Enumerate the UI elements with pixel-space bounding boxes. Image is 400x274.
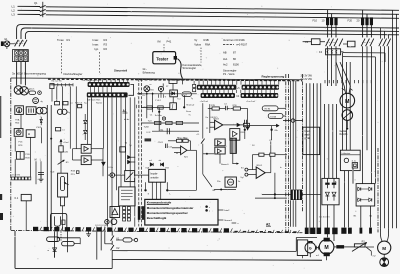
capacitor C8 drop	[269, 140, 272, 153]
svg-text:Isoll2: Isoll2	[63, 152, 69, 154]
op-amp N101 current regulator	[206, 104, 250, 139]
svg-text:K: K	[148, 193, 150, 195]
svg-text:AB: AB	[223, 50, 227, 54]
svg-text:verteiler: verteiler	[150, 176, 158, 179]
svg-text:5Ω: 5Ω	[369, 215, 372, 217]
label above strip X1A	[82, 80, 102, 82]
svg-text:IM: IM	[158, 39, 162, 43]
svg-text:L3: L3	[12, 12, 16, 16]
svg-text:Ign: Ign	[95, 47, 99, 51]
svg-text:s: s	[209, 211, 211, 213]
label board A2	[266, 222, 271, 226]
svg-text:auf: auf	[149, 160, 152, 162]
svg-text:P2A: P2A	[15, 118, 20, 121]
svg-text:wach.: wach.	[304, 133, 311, 136]
svg-text:M: M	[324, 245, 328, 251]
label Strom-0 arrow lower	[218, 219, 233, 222]
diode pair V1A	[145, 160, 153, 169]
wire phase drop to transformer	[17, 62, 26, 86]
legend box kommandostufe	[145, 199, 218, 225]
contactor K2 coil	[343, 41, 355, 47]
svg-text:Lüftersteu.: Lüftersteu.	[342, 152, 351, 155]
firing stage small box	[120, 142, 135, 163]
contactor main contacts 3-pole	[14, 40, 27, 47]
diode marks upper column	[84, 114, 87, 140]
connector X8B boxes	[193, 81, 196, 92]
rectifier box with bars	[26, 107, 36, 115]
rectifier small stadium	[29, 89, 41, 95]
ground symbol field	[86, 231, 91, 236]
svg-text:N14.1: N14.1	[257, 165, 263, 167]
svg-text:b+: b+	[280, 167, 283, 169]
svg-text:+15: +15	[196, 134, 199, 136]
contact K2 interlock	[111, 241, 120, 269]
header Steuerteil	[114, 68, 127, 72]
svg-text:R5: R5	[177, 138, 179, 140]
cabinet border left	[10, 78, 12, 231]
svg-text:P16: P16	[18, 141, 23, 143]
header Kommandostufe	[183, 63, 203, 70]
connector node on interface wire	[283, 119, 303, 123]
pulse stage box	[230, 129, 245, 141]
svg-text:A2: A2	[266, 222, 270, 226]
label Strom-0 arrow	[221, 163, 239, 166]
cabinet border right double	[286, 74, 289, 232]
header Ist-Erfassung	[143, 67, 156, 75]
wire supply verticals	[15, 114, 41, 176]
diode field supply	[47, 248, 56, 258]
label below strip X2B	[246, 101, 255, 103]
label M L wires	[35, 159, 42, 184]
wire control bus 2	[21, 28, 399, 39]
wire left return drop	[14, 231, 16, 268]
thermal relay F4	[319, 49, 343, 55]
label P2A R0b	[15, 118, 20, 124]
legend title	[147, 201, 172, 205]
svg-text:F20: F20	[348, 19, 353, 23]
pulse amplifier box 2	[215, 147, 225, 154]
svg-text:C1: C1	[62, 130, 65, 132]
label C between strips	[236, 96, 240, 98]
label R1B R6A	[178, 137, 188, 140]
svg-text:E4: E4	[241, 168, 244, 170]
svg-text:gleich: gleich	[29, 89, 34, 91]
svg-text:Stromregler: Stromregler	[183, 66, 197, 70]
svg-text:Tg: Tg	[191, 98, 193, 100]
svg-text:Rdf Hoch RDs: Rdf Hoch RDs	[87, 100, 100, 102]
field winding oval 2	[61, 231, 74, 245]
svg-text:Ist -: Ist -	[143, 67, 148, 71]
svg-text:Strom=0: Strom=0	[186, 103, 195, 106]
fuse-switch G1 with auxiliary box	[1, 38, 15, 49]
label Schalte with symbol	[155, 114, 166, 120]
svg-text:+1uf 1ud: +1uf 1ud	[200, 101, 209, 103]
pulse bars black	[138, 206, 145, 220]
connector box above border	[169, 80, 177, 90]
scan artifact blob 2	[0, 213, 3, 220]
feedback resistor pair	[252, 153, 287, 156]
label C1 Twd TwB2	[144, 114, 154, 128]
svg-text:G: G	[309, 247, 312, 251]
pulse distributor box	[149, 169, 166, 182]
reference supply arrow	[50, 139, 69, 173]
svg-text:A1: A1	[123, 109, 127, 113]
svg-text:n=0 R107: n=0 R107	[236, 42, 248, 46]
svg-text:Av1: Av1	[223, 57, 228, 61]
cabinet border top texture	[48, 79, 302, 81]
limit diode ticks	[158, 94, 166, 98]
header Stromversorgung	[12, 72, 46, 76]
scan artifact blob 1	[0, 96, 2, 200]
svg-text:Kommandostufe,: Kommandostufe,	[183, 63, 203, 67]
svg-text:Av2: Av2	[223, 62, 228, 66]
svg-text:Tsoll: Tsoll	[50, 171, 55, 173]
svg-text:M11: M11	[150, 90, 154, 92]
svg-text:By: By	[68, 112, 70, 114]
integrator box	[170, 103, 177, 110]
svg-text:m1: m1	[316, 255, 320, 257]
header Drehzahlregler	[64, 72, 83, 76]
wire N21 output drop	[195, 150, 197, 190]
cabinet border bottom	[11, 230, 303, 232]
wire stubs between X1A rows	[90, 87, 111, 92]
relay oval K1.9A	[268, 114, 286, 119]
wire summing rail	[141, 106, 170, 131]
terminal strip X1A row2	[87, 92, 128, 97]
svg-text:R2: R2	[104, 47, 108, 51]
left section component rects	[55, 102, 74, 132]
main motor M1	[316, 238, 334, 257]
thermal overload relay F1 block	[13, 50, 29, 62]
label Strom=0 with node	[183, 103, 195, 116]
svg-text:C4 R: C4 R	[146, 132, 151, 134]
cable stub row	[305, 215, 373, 234]
svg-text:RT: RT	[166, 86, 169, 88]
svg-text:TwB2: TwB2	[144, 126, 150, 128]
summing amplifier N11 circle	[142, 86, 154, 97]
pulse amplifier box 1	[215, 139, 225, 146]
relay P1B box	[16, 152, 30, 160]
svg-text:Da: Da	[206, 117, 209, 119]
header Stromregler P1	[223, 69, 237, 77]
svg-text:R3D: R3D	[241, 132, 245, 134]
node K distributor output	[144, 182, 146, 191]
svg-text:Impuls-: Impuls-	[150, 174, 158, 176]
wire control bus 3	[25, 31, 399, 39]
potentiometer P1B tall box	[58, 173, 69, 197]
svg-text:P15: P15	[71, 174, 76, 176]
wire field drops	[55, 231, 68, 257]
svg-text:P1 - Verst.: P1 - Verst.	[223, 72, 235, 76]
label R15 C3 with box	[75, 103, 83, 108]
cabinet border outer right	[301, 74, 303, 212]
label +S- between strips	[237, 88, 240, 90]
svg-text:Momentenrichtungsspeicher: Momentenrichtungsspeicher	[147, 211, 189, 215]
svg-text:Drehzahlregler: Drehzahlregler	[64, 72, 83, 76]
svg-text:gerät: gerät	[304, 137, 310, 140]
wire distributor drops	[152, 182, 160, 199]
wire fan feeders	[343, 46, 376, 227]
svg-text:R4: R4	[252, 145, 254, 147]
label Vy R1B column	[194, 38, 210, 63]
label 3U 3V 3W terminals	[301, 74, 313, 81]
terminal strip X2A row2	[201, 93, 235, 98]
svg-text:1C1 1D1 1E1: 1C1 1D1 1E1	[319, 216, 330, 218]
svg-text:R1: R1	[66, 162, 70, 164]
label Istw2 arrow	[218, 209, 230, 212]
svg-text:R0b: R0b	[15, 123, 20, 125]
node L1 L2 L3 supply labels	[12, 4, 16, 16]
wire rail above strip X2	[197, 79, 283, 82]
svg-text:R1B: R1B	[71, 170, 76, 172]
svg-text:L: L	[40, 159, 42, 161]
wire field link	[57, 238, 80, 244]
terminal strip X1A row1	[88, 82, 130, 87]
svg-text:Erfassung: Erfassung	[143, 70, 156, 74]
svg-text:Imax: Imax	[93, 42, 99, 46]
contactor K1 main contacts	[326, 39, 343, 47]
switch Q1 main disconnect	[34, 1, 46, 17]
svg-text:R1 R4: R1 R4	[265, 109, 272, 111]
converter capacitors	[325, 178, 336, 188]
label Rx with node	[213, 189, 236, 193]
svg-text:ds ds: ds ds	[124, 119, 130, 121]
svg-text:M: M	[345, 99, 349, 105]
shaft coupling	[316, 246, 320, 250]
wire steuerteil vertical bundle	[103, 97, 134, 226]
power resistor block striped	[290, 190, 302, 200]
svg-text:m: m	[47, 250, 49, 252]
svg-text:R76: R76	[18, 145, 23, 147]
svg-text:Rd n=0 R5: Rd n=0 R5	[52, 81, 63, 83]
svg-text:R1B: R1B	[204, 38, 209, 42]
wire regler margin verticals	[291, 81, 296, 227]
resistor R1B lower	[60, 197, 64, 231]
svg-text:V102: V102	[36, 127, 42, 129]
svg-text:V: V	[165, 97, 167, 99]
svg-text:+1us 1ud: +1us 1ud	[246, 101, 255, 103]
terminal tick row	[325, 80, 371, 83]
svg-text:E14a: E14a	[109, 167, 114, 169]
svg-text:Beschaltlogik: Beschaltlogik	[147, 216, 167, 220]
svg-text:Tst: Tst	[238, 180, 241, 183]
section divider steuerteil	[139, 79, 142, 227]
svg-text:R3: R3	[104, 42, 108, 46]
svg-text:Strom-0: Strom-0	[224, 219, 233, 222]
wire bridge outputs	[361, 206, 371, 228]
pulse transformer hatched	[230, 138, 236, 153]
wire speed section drops	[147, 92, 185, 119]
svg-text:Imax: Imax	[93, 38, 99, 42]
svg-text:s: s	[209, 207, 211, 209]
label CN R	[158, 142, 164, 144]
wire rail steuerteil dashes	[131, 78, 196, 80]
stabilizer box with meter	[15, 106, 24, 115]
svg-text:P41: P41	[167, 39, 172, 43]
wire right bus to converter	[325, 104, 337, 178]
svg-text:20: 20	[357, 19, 360, 23]
terminal strip X2A row1	[197, 85, 237, 90]
auxiliary contacts right group	[379, 28, 391, 46]
wire mid verticals	[73, 97, 104, 176]
wire armature feedback long	[255, 173, 287, 199]
strip X1A right bracket	[128, 85, 133, 96]
hochlaufgeber tall box	[119, 187, 135, 206]
svg-text:Schalte: Schalte	[155, 114, 163, 117]
terminal strip X2B row1	[242, 85, 279, 90]
wire reference rail pair	[47, 105, 52, 231]
supply box with symbol	[14, 129, 23, 137]
svg-text:Steuerteil: Steuerteil	[114, 68, 127, 72]
svg-text:Tnd: Tnd	[177, 99, 180, 101]
resistor R15 small dark	[145, 138, 152, 141]
potentiometer wiper R1	[58, 160, 70, 173]
wire tacho output with node	[340, 120, 349, 136]
motor symbol small	[105, 219, 117, 225]
relay K1 coil box	[15, 194, 32, 230]
op-amp N14.1 gate driver	[240, 165, 265, 179]
relay stadium below row	[116, 238, 138, 242]
svg-text:N1: N1	[354, 215, 358, 217]
svg-text:Q1: Q1	[34, 1, 38, 5]
svg-text:C4: C4	[236, 96, 240, 98]
svg-text:m2: m2	[373, 255, 377, 257]
op-amp N21 actual value	[172, 146, 196, 159]
svg-text:1U1 1V1 1W1: 1U1 1V1 1W1	[95, 225, 108, 227]
svg-text:L: L	[170, 193, 172, 195]
svg-text:=: =	[28, 132, 30, 136]
tachogenerator on motor shaft	[342, 110, 353, 121]
svg-text:Tester: Tester	[156, 56, 168, 61]
wire resistor chain rail	[141, 121, 199, 124]
relay oval K1 R4	[262, 106, 286, 111]
label R1B P15	[71, 170, 79, 175]
svg-text:(1 2): (1 2)	[352, 161, 356, 163]
svg-text:C1: C1	[150, 114, 154, 116]
wire steuerteil feeder with contact	[201, 103, 214, 187]
field winding oval 1	[47, 237, 60, 242]
svg-text:P1: P1	[206, 128, 208, 130]
svg-text:Vgl: Vgl	[240, 177, 243, 179]
svg-text:P1B: P1B	[25, 154, 30, 156]
svg-text:Momentenrichtungsübernamsler: Momentenrichtungsübernamsler	[147, 206, 195, 210]
svg-text:3x 3(0)V Stromversorgung: 3x 3(0)V Stromversorgung	[12, 72, 46, 76]
svg-text:K14: K14	[183, 95, 186, 97]
shunt resistor	[334, 245, 355, 248]
svg-text:F10: F10	[313, 19, 318, 23]
svg-text:R1: R1	[67, 38, 71, 42]
connector housing symbol	[51, 213, 109, 230]
svg-text:Vy: Vy	[194, 38, 198, 42]
svg-text:dy: dy	[41, 101, 44, 103]
label below strip X2A	[200, 101, 209, 103]
wire speed signal rail	[137, 93, 197, 95]
svg-text:G1: G1	[4, 38, 8, 41]
fan motor M2	[378, 228, 391, 254]
svg-text:Tgl: Tgl	[129, 145, 132, 147]
svg-text:Rx: Rx	[213, 190, 217, 192]
transformer T1 windings	[14, 86, 28, 95]
terminal squares row with labels	[12, 175, 31, 180]
wire motor returns	[302, 253, 326, 260]
converter module box	[322, 178, 339, 204]
svg-text:87: 87	[233, 50, 236, 54]
svg-text:1 Vf0 1: 1 Vf0 1	[155, 100, 161, 102]
wire tester drop	[181, 78, 183, 84]
label P16 R76	[18, 141, 23, 146]
svg-text:Strom-0: Strom-0	[221, 163, 229, 166]
micro labels texture speed section	[109, 84, 284, 169]
capacitor to ground	[38, 173, 44, 182]
svg-text:ab: ab	[159, 160, 162, 162]
svg-text:Twd: Twd	[148, 120, 153, 122]
capacitor C15	[166, 144, 173, 149]
svg-text:M: M	[35, 159, 37, 161]
label gain settings column	[223, 38, 248, 67]
svg-text:Über-: Über-	[304, 130, 310, 133]
relay oval K14A	[182, 92, 191, 97]
supply box aux	[26, 130, 35, 138]
wire stubs between X2 rows	[203, 90, 274, 93]
tick arrow above terminal row	[232, 223, 239, 225]
wire L2 phase bus	[18, 10, 400, 14]
wire bottom return	[15, 267, 112, 269]
svg-text:+5: +5	[237, 88, 240, 90]
motor M spindle drive	[340, 93, 355, 108]
svg-text:R21,R1: R21,R1	[340, 133, 349, 136]
svg-text:R6A: R6A	[205, 43, 210, 47]
svg-text:Vplus: Vplus	[194, 43, 201, 47]
limiter circle	[158, 83, 163, 91]
svg-text:Stromregler: Stromregler	[223, 69, 237, 73]
wire stubs into strip X1A	[90, 79, 128, 82]
contactor K1 coil	[303, 39, 325, 45]
svg-text:Reglerspannung: Reglerspannung	[262, 74, 285, 78]
svg-text:R4: R4	[104, 38, 108, 42]
terminal strip X2B row2	[241, 93, 279, 98]
svg-text:P0n: P0n	[217, 181, 221, 183]
wire fuse drop to motor	[328, 46, 353, 93]
wire L1 phase bus	[18, 6, 400, 10]
node L distributor output	[148, 182, 197, 195]
svg-text:K.1: K.1	[15, 197, 19, 200]
bridge diodes	[357, 187, 372, 201]
legend line 2	[147, 211, 189, 215]
svg-text:Tmax: Tmax	[57, 38, 64, 42]
svg-text:F4: F4	[319, 50, 323, 54]
wire control bus 1	[17, 25, 399, 39]
svg-text:C0b: C0b	[274, 130, 277, 132]
wire converter to motor	[327, 205, 334, 241]
svg-text:Strom: Strom	[186, 110, 191, 113]
converter thyristors	[325, 192, 336, 200]
wire istw rail with node	[244, 120, 279, 140]
left strip small box	[50, 84, 54, 89]
wire left section verticals	[52, 86, 76, 148]
choke box with triangle	[110, 207, 120, 218]
label Tmax R1 with test point	[57, 38, 70, 75]
contact K1 interlock	[111, 231, 120, 240]
svg-text:86: 86	[233, 57, 236, 61]
label left rail	[52, 81, 63, 83]
tachogenerator G	[305, 241, 316, 253]
svg-text:Tv: Tv	[188, 114, 191, 116]
svg-text:ns: ns	[150, 84, 152, 86]
terminal squares column	[123, 207, 131, 221]
svg-text:Td: Td	[125, 142, 127, 144]
wire op-amp loop	[252, 155, 270, 173]
svg-text:K2: K2	[116, 247, 120, 250]
